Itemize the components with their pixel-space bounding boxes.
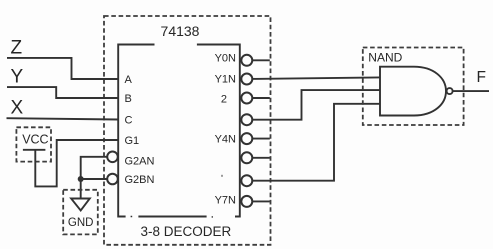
wire NAND output to F (453, 90, 489, 92)
pin G2BN input bubble (107, 174, 118, 185)
wire Y5N stub (252, 157, 269, 159)
svg-text:NAND: NAND (368, 51, 402, 65)
output bubble Y4N (241, 133, 252, 144)
svg-text:GND: GND (68, 217, 94, 229)
wire Y2N stub (252, 97, 269, 99)
svg-text:G2BN: G2BN (125, 174, 155, 186)
svg-text:74138: 74138 (161, 23, 200, 39)
svg-text:Y4N: Y4N (215, 133, 236, 145)
svg-text:Z: Z (11, 38, 23, 59)
svg-text:A: A (125, 74, 133, 86)
svg-text:VCC: VCC (22, 133, 48, 147)
GND dashed box (63, 190, 98, 235)
wire Y7N stub (252, 200, 269, 202)
wire Y1N to NAND input 1 (252, 77, 380, 79)
decoder U1 body (3-8 decoder IC outline) (118, 45, 240, 217)
output bubble Y2N (241, 93, 252, 104)
wire Z to pin A (7, 58, 118, 79)
decoder dashed boundary box (104, 16, 271, 245)
svg-text:F: F (477, 69, 486, 86)
NAND dashed box (363, 48, 464, 126)
wire Y to pin B (7, 87, 118, 98)
wire G2BN to junction (81, 178, 108, 180)
wire G2AN to ground (81, 157, 108, 199)
output bubble Y0N (241, 55, 252, 66)
output bubble Y3N (241, 114, 252, 125)
svg-text:2: 2 (221, 93, 227, 105)
svg-text:B: B (125, 93, 132, 105)
svg-text:Y7N: Y7N (215, 194, 236, 206)
svg-text:Y1N: Y1N (215, 73, 236, 85)
output bubble Y7N (241, 196, 252, 207)
wire Y6N to NAND input 3 (252, 104, 380, 181)
wire Y3N to NAND input 2 (252, 90, 380, 120)
VCC power bar symbol (23, 149, 46, 151)
svg-text:G2AN: G2AN (125, 156, 155, 168)
NAND gate U2 body (380, 67, 446, 116)
svg-text:C: C (125, 115, 133, 127)
svg-text:3-8 DECODER: 3-8 DECODER (141, 224, 232, 239)
svg-text:Y0N: Y0N (215, 53, 236, 65)
svg-text:G1: G1 (125, 135, 140, 147)
wire Y0N stub (252, 59, 269, 61)
pin G2AN input bubble (107, 152, 118, 163)
wire VCC to pin G1 (35, 140, 118, 186)
VCC dashed box (16, 127, 51, 161)
output bubble Y1N (241, 74, 252, 85)
ground symbol triangle (71, 199, 90, 211)
svg-text:Y: Y (11, 67, 24, 88)
output bubble Y5N (241, 152, 252, 163)
wire X to pin C (7, 118, 119, 119)
output bubble Y6N (241, 175, 252, 186)
junction dot on ground net (78, 176, 84, 182)
wire Y4N stub (252, 138, 269, 140)
svg-text:X: X (11, 98, 24, 119)
faint speckle artifact near Y6N row (221, 175, 223, 177)
NAND output bubble (447, 88, 453, 94)
